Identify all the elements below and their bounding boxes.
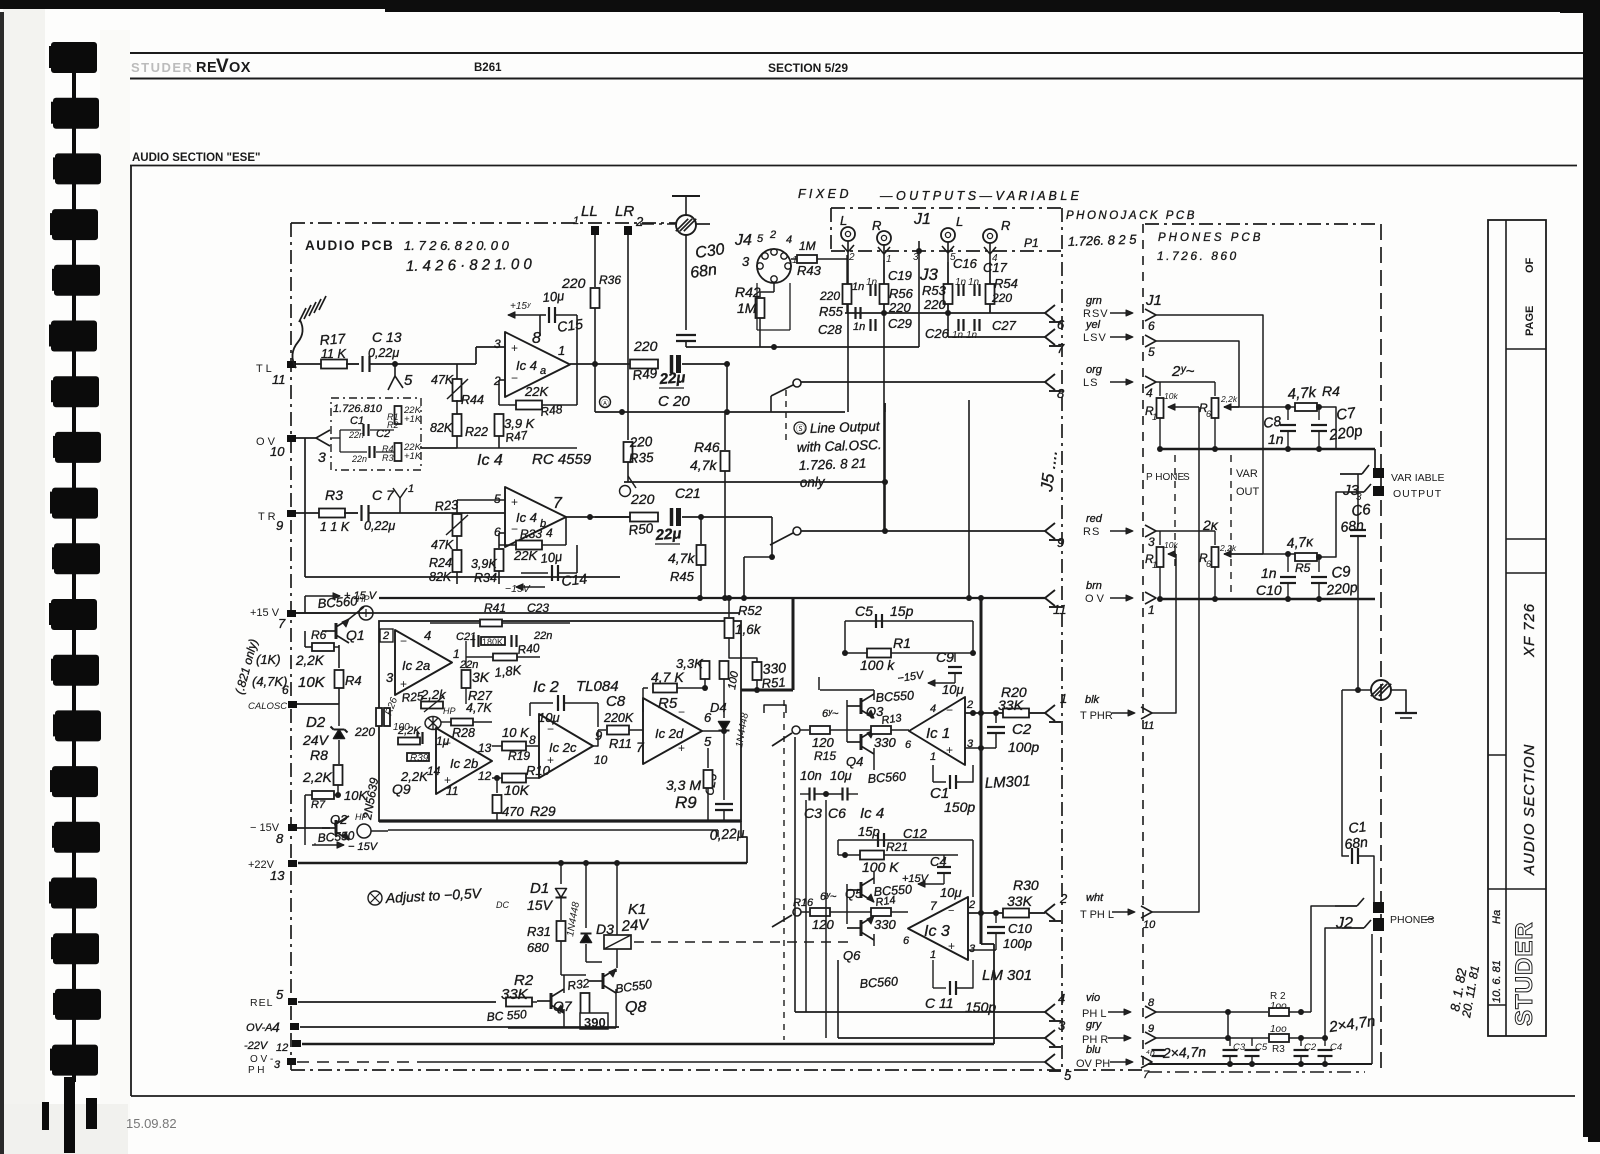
resistor R19 10K	[502, 742, 526, 751]
svg-text:R54: R54	[994, 276, 1018, 291]
svg-text:68n: 68n	[1340, 517, 1365, 535]
svg-text:C4: C4	[1330, 1042, 1342, 1053]
svg-text:4: 4	[424, 628, 431, 643]
wire PHL	[795, 1011, 1045, 1013]
trimmer resistor R23 47K	[456, 513, 458, 515]
svg-text:22K: 22K	[513, 548, 538, 563]
capacitor C30 68n	[685, 235, 687, 330]
svg-text:C4: C4	[930, 854, 947, 869]
svg-text:+1K: +1K	[404, 451, 422, 462]
capacitor C11 150p	[932, 960, 934, 988]
svg-text:100p: 100p	[1003, 936, 1032, 951]
svg-text:wht: wht	[1086, 892, 1104, 904]
svg-text:4: 4	[1058, 991, 1065, 1006]
svg-text:R44: R44	[461, 393, 484, 407]
wire pin6 RSV	[1156, 315, 1263, 554]
svg-text:R35: R35	[628, 450, 654, 466]
svg-text:7: 7	[1057, 341, 1065, 356]
ground bus under J4	[686, 346, 919, 348]
resistor R55 220	[843, 284, 852, 304]
wire IC4a output	[570, 363, 632, 365]
svg-text:R3: R3	[382, 453, 394, 463]
capacitor C16 1n	[957, 284, 959, 296]
svg-text:14: 14	[427, 764, 441, 778]
power +15V arrow at IC4a	[508, 314, 540, 316]
svg-text:3: 3	[494, 337, 501, 351]
svg-text:D4: D4	[710, 700, 727, 715]
wire pin9 PHR	[1156, 1037, 1325, 1039]
transistor Q1 BC560	[296, 612, 330, 614]
svg-text:2×4,7n: 2×4,7n	[1162, 1043, 1207, 1061]
capacitor C13 0.22u	[361, 356, 363, 372]
svg-text:+: +	[511, 495, 518, 509]
resistor R39	[407, 753, 429, 761]
jack J2 levers	[1335, 905, 1357, 907]
svg-text:R31: R31	[527, 924, 551, 939]
svg-text:— O U T P U T S — V A R I A: — O U T P U T S — V A R I A B L E	[879, 189, 1080, 203]
op-amp IC2d	[643, 698, 702, 764]
svg-text:100 K: 100 K	[862, 859, 899, 875]
svg-text:4: 4	[546, 526, 553, 540]
resistor R3p 100	[1269, 1034, 1289, 1042]
svg-text:R43: R43	[797, 263, 822, 278]
wire jack R down	[883, 244, 885, 531]
svg-text:Ic 4: Ic 4	[516, 510, 537, 525]
svg-text:O V: O V	[1085, 593, 1105, 605]
svg-text:brn: brn	[1086, 580, 1102, 592]
bus phones low	[1158, 598, 1375, 600]
wire -22V up	[993, 944, 995, 1044]
svg-text:RS: RS	[1083, 526, 1100, 538]
svg-text:R56: R56	[889, 286, 914, 301]
svg-text:D2: D2	[306, 714, 326, 731]
squiggle P1 mark	[292, 320, 302, 368]
ground bar 2	[1395, 712, 1417, 714]
svg-text:2,2K: 2,2K	[397, 725, 421, 737]
resistor R12 3.3K	[701, 661, 710, 679]
svg-text:1. 7 2 6. 8 2 0. 0 0: 1. 7 2 6. 8 2 0. 0 0	[404, 238, 510, 253]
svg-text:−: −	[948, 905, 954, 917]
svg-text:22n: 22n	[348, 430, 364, 440]
filter row R41 C23	[430, 622, 570, 624]
svg-text:−: −	[400, 634, 407, 648]
op-amp IC2c	[539, 714, 593, 778]
svg-text:6: 6	[1206, 559, 1211, 569]
svg-text:22μ: 22μ	[658, 369, 686, 388]
svg-text:47K: 47K	[431, 373, 454, 387]
connector pin -22V 12	[292, 1040, 301, 1047]
svg-text:V: V	[216, 56, 229, 77]
mech link dash long	[783, 700, 785, 1040]
wire CALOSC	[297, 703, 339, 705]
svg-text:4,7k: 4,7k	[668, 550, 695, 566]
svg-text:10: 10	[270, 444, 285, 459]
svg-text:7: 7	[553, 495, 563, 512]
svg-text:3,3 M: 3,3 M	[666, 777, 701, 793]
capacitor C9p 220p	[1318, 557, 1320, 572]
svg-text:L: L	[956, 214, 963, 229]
resistor R34 3.9K	[499, 532, 505, 534]
resistor R6 2.2K	[304, 631, 306, 647]
wire pin4 LS	[1156, 381, 1215, 383]
svg-text:gry: gry	[1086, 1019, 1103, 1031]
binder hole partial	[42, 1102, 49, 1130]
wire 1228 down	[1227, 1012, 1229, 1038]
svg-text:150p: 150p	[944, 799, 975, 815]
resistor R30 33K	[1003, 909, 1029, 918]
phones J1 pin 5	[1145, 335, 1156, 347]
wire pin5 LSV	[1156, 341, 1239, 407]
diode D1 15V zener	[560, 863, 562, 884]
phones J1 pin 9	[1145, 1032, 1156, 1044]
svg-text:HP: HP	[443, 706, 456, 716]
svg-text:C10: C10	[1008, 921, 1033, 936]
svg-text:OX: OX	[229, 60, 251, 76]
svg-text:1,6k: 1,6k	[735, 622, 762, 637]
svg-text:R45: R45	[670, 569, 695, 584]
svg-text:11: 11	[446, 784, 458, 798]
resistor R8 2.2K	[334, 765, 343, 785]
svg-text:+: +	[511, 341, 518, 355]
svg-text:13: 13	[270, 868, 285, 883]
resistor R3 11K	[319, 509, 345, 518]
resistor R9 3.3M	[707, 748, 709, 768]
connector pin +22V 13	[288, 860, 297, 867]
svg-text:C23: C23	[527, 601, 549, 615]
svg-text:C6: C6	[828, 805, 846, 821]
title block outer box	[1488, 220, 1546, 1036]
svg-text:T PHR: T PHR	[1080, 710, 1113, 722]
wire C1 68n	[1342, 690, 1349, 856]
phonojack OV 11	[1045, 590, 1055, 606]
screw terminal 2	[1355, 687, 1361, 693]
svg-text:1: 1	[573, 215, 579, 227]
wire LS to phonojack	[801, 381, 1045, 383]
svg-text:Ic 2b: Ic 2b	[450, 756, 478, 771]
svg-text:R52: R52	[738, 603, 763, 618]
svg-text:4,7 K: 4,7 K	[651, 669, 684, 685]
svg-text:OF: OF	[1524, 257, 1536, 273]
test point HP top	[359, 606, 373, 620]
wire R5 row	[1224, 553, 1296, 555]
svg-text:22K: 22K	[524, 384, 549, 399]
svg-text:blu: blu	[1086, 1044, 1101, 1056]
svg-text:Ⓢ: Ⓢ	[796, 424, 805, 434]
antenna mark Y	[399, 498, 401, 513]
svg-text:VAR IABLE: VAR IABLE	[1391, 472, 1445, 484]
capacitor C4 10u	[943, 855, 945, 862]
wire OV-A	[300, 1026, 619, 1028]
diode D4 1N4448	[719, 722, 730, 731]
svg-text:(1K): (1K)	[256, 652, 281, 667]
svg-text:P HONE: P HONE	[1146, 472, 1184, 483]
svg-text:R4: R4	[345, 673, 362, 688]
resistor R13 330	[871, 726, 891, 734]
jack L variable	[941, 228, 955, 242]
switch contact RS	[793, 527, 801, 535]
audio pcb border top	[291, 222, 676, 224]
svg-text:100 k: 100 k	[860, 657, 895, 673]
phones pcb border right	[1380, 224, 1382, 1075]
svg-text:10μ: 10μ	[540, 549, 563, 566]
svg-text:0,22μ: 0,22μ	[368, 346, 399, 360]
svg-text:15p: 15p	[890, 603, 914, 619]
svg-text:1n: 1n	[968, 277, 980, 288]
wire OV input	[296, 437, 316, 439]
svg-text:1oo: 1oo	[1270, 1024, 1287, 1035]
resistor R51 330	[753, 662, 762, 680]
mech link dash	[785, 390, 787, 440]
svg-text:+: +	[948, 939, 955, 953]
svg-text:PAGE: PAGE	[1524, 306, 1536, 336]
pot R6 lower	[1214, 531, 1216, 545]
resistor cluster R26 100 220	[376, 708, 382, 726]
svg-text:1n: 1n	[952, 330, 964, 341]
capacitor C29 1n	[869, 319, 871, 331]
wire to RS contact	[771, 517, 773, 557]
svg-text:OV PH: OV PH	[1076, 1058, 1110, 1070]
pot R6 upper	[1214, 382, 1216, 396]
resistor R36 220	[591, 288, 600, 308]
svg-text:1.726. 860: 1.726. 860	[1157, 249, 1239, 263]
resistor R50 220	[630, 513, 658, 522]
bus +15V rail	[296, 612, 740, 614]
svg-text:4,7k: 4,7k	[690, 457, 717, 473]
svg-text:RE: RE	[196, 60, 217, 76]
trimmer R25 2.2K	[421, 702, 443, 709]
resistor R29 470	[496, 778, 498, 793]
resistor R22 82K	[456, 400, 458, 414]
capacitor C21b	[472, 635, 474, 647]
wire pin3 RS	[1156, 530, 1215, 532]
svg-text:R: R	[872, 218, 881, 233]
svg-text:5: 5	[276, 987, 284, 1002]
transistor Q3 BC550	[860, 698, 863, 714]
capacitor C19 1n	[869, 284, 871, 296]
svg-text:2,2k: 2,2k	[1220, 394, 1238, 404]
svg-text:1n: 1n	[1268, 431, 1284, 447]
svg-text:R17: R17	[319, 330, 347, 348]
phonojack OVPH 5	[1045, 1054, 1055, 1070]
svg-text:6: 6	[1206, 409, 1211, 419]
trimmer resistor R44 47K	[456, 364, 458, 380]
svg-text:R3: R3	[325, 487, 343, 503]
svg-text:82K: 82K	[430, 421, 453, 435]
svg-text:11: 11	[1053, 602, 1067, 617]
resistor R20 33K	[1003, 709, 1029, 718]
arrow -15V bottom	[314, 843, 316, 845]
resistor R31 680	[557, 921, 566, 941]
phones J1 pin 8	[1145, 1006, 1156, 1018]
svg-text:C 7: C 7	[372, 487, 395, 503]
ic2 block bottom heavy	[379, 819, 741, 822]
svg-text:BC 550: BC 550	[486, 1007, 527, 1024]
svg-text:with Cal.OSC.: with Cal.OSC.	[797, 437, 882, 455]
transistor Q7 BC550	[550, 993, 553, 1009]
resistor R54 220	[986, 284, 995, 304]
wiper arrows	[1224, 406, 1239, 408]
svg-text:− 15V: − 15V	[348, 841, 379, 853]
svg-text:OUT: OUT	[1236, 486, 1260, 498]
wire TL input	[296, 363, 322, 365]
svg-text:R25: R25	[401, 689, 424, 705]
resistor R46 4.7K	[724, 412, 726, 450]
resistor R49 220	[630, 360, 658, 369]
wire TPHR to pot	[1152, 554, 1176, 713]
svg-text:T R: T R	[258, 511, 276, 523]
svg-text:6ʸ~: 6ʸ~	[822, 708, 839, 720]
wire IC1 minus	[965, 712, 1006, 714]
svg-text:47K: 47K	[431, 538, 454, 552]
capacitor C5p	[1251, 1038, 1253, 1046]
svg-text:1oo: 1oo	[1270, 1001, 1287, 1012]
svg-text:R5: R5	[658, 695, 678, 712]
wire IC4 lower rail	[420, 447, 577, 449]
resistor R5 4.7K	[643, 687, 648, 689]
q3 q4 wires	[846, 700, 848, 742]
svg-text:R4: R4	[1322, 383, 1340, 399]
svg-text:11 K: 11 K	[321, 347, 346, 361]
phonojack TPHR 1	[1045, 705, 1055, 721]
wire phr upper	[825, 800, 827, 1038]
svg-text:J4: J4	[734, 232, 752, 249]
phonojack RSV 6	[1045, 305, 1055, 321]
phones J1 pin 10	[1141, 906, 1152, 918]
svg-text:1,8K: 1,8K	[494, 662, 523, 680]
svg-text:P1: P1	[1024, 236, 1039, 250]
svg-text:2ʸ~: 2ʸ~	[1171, 363, 1195, 380]
wire jack Rvar down	[989, 243, 991, 313]
audio pcb border bottom	[291, 1069, 1143, 1071]
capacitor C12 15p	[838, 839, 973, 841]
svg-text:6: 6	[1148, 319, 1155, 333]
svg-text:1. 4 2 6 · 8 2 1. 0 0: 1. 4 2 6 · 8 2 1. 0 0	[406, 256, 533, 275]
svg-text:2,2K: 2,2K	[295, 653, 325, 668]
svg-text:330: 330	[874, 917, 896, 932]
jack J2 contacts	[1373, 902, 1384, 913]
wire var-L down	[968, 400, 970, 598]
svg-text:1: 1	[930, 949, 936, 961]
svg-text:+: +	[678, 741, 685, 755]
capacitor C5 15p	[875, 614, 877, 628]
connector pin OV-PH 3	[287, 1058, 296, 1065]
resistor R16 120	[793, 908, 801, 916]
capacitor C9 10u	[954, 653, 956, 662]
resistor R56 220	[880, 284, 889, 304]
sub-board box 1.726.810	[331, 398, 421, 470]
svg-text:13: 13	[478, 741, 492, 755]
svg-text:5: 5	[704, 734, 712, 749]
capacitor C21 22u	[670, 508, 674, 526]
svg-text:C9: C9	[936, 649, 954, 665]
wire	[346, 363, 359, 365]
phones J1 pin 11	[1141, 707, 1152, 719]
svg-text:OV-A: OV-A	[246, 1022, 273, 1034]
svg-text:7: 7	[278, 616, 286, 631]
phones J1 pin 4	[1145, 376, 1156, 388]
svg-text:C27: C27	[992, 318, 1017, 333]
phones J1 pin 7	[1141, 1056, 1152, 1068]
capacitor C1 150p	[932, 765, 934, 782]
test point star	[425, 717, 441, 730]
svg-text:+15ʸ: +15ʸ	[510, 301, 532, 312]
resistor 2.2K row	[398, 738, 420, 745]
svg-text:+: +	[400, 677, 407, 691]
resistor R52 1.6K	[728, 598, 730, 617]
svg-text:Q1: Q1	[346, 627, 365, 643]
svg-text:C10: C10	[1256, 582, 1282, 598]
wire TR input	[296, 512, 320, 514]
svg-text:R49: R49	[632, 365, 659, 383]
svg-text:R53: R53	[922, 283, 947, 298]
arrow -15V at IC1	[928, 682, 955, 684]
capacitor C10 100p	[995, 913, 997, 923]
svg-text:10μ: 10μ	[942, 682, 964, 697]
arrow +15V at IC3	[918, 883, 944, 885]
capacitor C27 1n	[973, 319, 975, 331]
resistor R45 4.7K	[700, 517, 702, 544]
svg-text:LSV: LSV	[1083, 332, 1107, 344]
wire line-output	[624, 481, 885, 483]
svg-text:R50: R50	[628, 520, 655, 538]
wire RS to phonojack	[801, 530, 1045, 532]
svg-text:R22: R22	[465, 425, 488, 439]
svg-text:8: 8	[276, 831, 284, 846]
screw terminal chassis	[676, 215, 696, 235]
svg-text:Q6: Q6	[843, 948, 861, 963]
svg-text:22μ: 22μ	[654, 525, 682, 544]
svg-text:6ʸ~: 6ʸ~	[820, 891, 837, 903]
svg-text:-22V: -22V	[244, 1040, 269, 1052]
resistor R37 100	[720, 661, 729, 679]
wires in sub-board	[340, 429, 361, 431]
svg-text:R40: R40	[517, 641, 541, 657]
svg-text:6: 6	[903, 935, 910, 947]
svg-text:R55: R55	[819, 304, 844, 319]
bus OVPH phones	[1148, 1063, 1372, 1065]
svg-text:24V: 24V	[620, 916, 651, 935]
trimmer R1 R2 22K+1K	[395, 406, 402, 424]
svg-text:1.726. 8 21: 1.726. 8 21	[799, 456, 867, 473]
arrow +15V top	[304, 596, 306, 613]
capacitor 22n b	[510, 635, 512, 647]
svg-text:33K: 33K	[998, 697, 1024, 713]
svg-text:1.726. 8 2 5: 1.726. 8 2 5	[1068, 232, 1138, 249]
connector pin REL 5	[288, 998, 297, 1005]
svg-text:+ 15 V: + 15 V	[344, 590, 378, 602]
svg-text:OUTPUT: OUTPUT	[1393, 488, 1442, 500]
svg-text:R30: R30	[1013, 877, 1039, 893]
wire C5 top	[845, 620, 973, 622]
capacitor C3 10n	[808, 788, 810, 801]
capacitor C2 100p	[965, 747, 996, 749]
trimmer R4 R3 22K+1K	[395, 443, 402, 461]
header rule bottom	[130, 78, 1583, 80]
svg-text:68n: 68n	[1344, 834, 1369, 852]
svg-text:L: L	[840, 213, 847, 228]
scan artifact left edge line	[0, 12, 4, 1154]
svg-text:1.726.810: 1.726.810	[333, 403, 383, 415]
svg-text:10K: 10K	[298, 674, 326, 691]
svg-text:220K: 220K	[603, 711, 634, 725]
svg-text:(4,7K): (4,7K)	[252, 674, 287, 689]
resistor R2p 100	[1269, 1008, 1289, 1016]
switch contact headphones	[772, 733, 792, 746]
svg-text:+: +	[946, 743, 953, 757]
svg-text:Q9: Q9	[392, 781, 411, 797]
svg-text:C28: C28	[818, 322, 843, 337]
svg-text:470: 470	[502, 804, 524, 819]
